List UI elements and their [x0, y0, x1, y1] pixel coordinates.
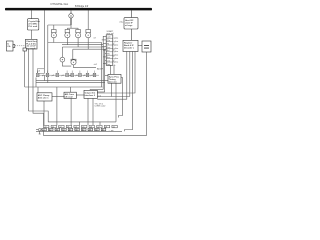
svg-text:A1: A1 [102, 129, 104, 132]
svg-text:A8: A8 [89, 129, 91, 132]
svg-text:p0: p0 [113, 127, 115, 129]
svg-text:ADC Clamp: ADC Clamp [38, 94, 50, 97]
svg-text:rg3ax: rg3ax [114, 48, 119, 50]
svg-text:— pin: — pin [109, 130, 114, 132]
svg-text:p6: p6 [83, 75, 85, 77]
svg-text:rg0ax: rg0ax [114, 38, 119, 40]
svg-text:PLL mult: PLL mult [28, 25, 37, 28]
svg-text:Decoder x: Decoder x [124, 47, 135, 50]
svg-text:Lum: Lum [107, 37, 111, 39]
svg-text:p2: p2 [52, 75, 54, 77]
svg-text:out: out [98, 95, 101, 98]
svg-text:p7: p7 [98, 127, 100, 129]
svg-text:Sync Proc: Sync Proc [109, 76, 120, 79]
svg-text:A2: A2 [49, 129, 51, 132]
svg-text:rg4ax: rg4ax [114, 51, 119, 53]
svg-text:p1: p1 [52, 127, 54, 129]
svg-text:27.0 MHz: 27.0 MHz [28, 23, 37, 25]
svg-text:A6: A6 [75, 129, 77, 132]
svg-text:p5: p5 [82, 127, 84, 129]
svg-text:Fmt: Fmt [107, 63, 111, 66]
svg-text:Dec: Dec [107, 47, 111, 49]
svg-text:p8: p8 [105, 127, 107, 129]
svg-text:Crystal.Osc: Crystal.Osc [28, 20, 40, 23]
svg-text:rg1ax: rg1ax [114, 41, 119, 43]
svg-text:A4: A4 [62, 129, 64, 132]
svg-text:p4: p4 [69, 75, 71, 77]
svg-text:ADDR: ADDR [97, 67, 104, 70]
svg-text:Output fmt: Output fmt [85, 91, 96, 94]
svg-text:p4: p4 [75, 127, 77, 129]
svg-text:mux sel: mux sel [107, 33, 114, 35]
svg-text:A1: A1 [42, 129, 44, 132]
svg-text:rg7ax: rg7ax [114, 61, 119, 63]
svg-text:rg5ax: rg5ax [114, 55, 119, 57]
svg-text:p7: p7 [91, 75, 93, 77]
svg-text:run mode: run mode [26, 47, 36, 50]
svg-text:Out: Out [107, 59, 111, 62]
svg-text:rg2ax: rg2ax [114, 44, 119, 46]
svg-text:A3: A3 [56, 129, 58, 132]
svg-text:p1: p1 [42, 75, 44, 77]
svg-text:A7: A7 [82, 129, 84, 132]
svg-text:slave IF: slave IF [125, 22, 133, 24]
svg-text:p5: p5 [76, 75, 78, 77]
svg-text:AGC ckt in: AGC ckt in [38, 97, 49, 100]
svg-text:rg6ax: rg6ax [114, 58, 119, 60]
svg-text:blk out2: blk out2 [65, 96, 74, 99]
svg-text:CVBS out2: CVBS out2 [95, 105, 107, 108]
svg-text:p3: p3 [67, 127, 69, 129]
svg-text:Register: Register [124, 41, 133, 44]
svg-text:A0: A0 [95, 129, 97, 132]
svg-text:Mtx: Mtx [107, 53, 110, 56]
svg-text:p2: p2 [60, 127, 62, 129]
svg-text:Host I2C: Host I2C [125, 19, 134, 22]
svg-text:Enc: Enc [107, 57, 110, 59]
svg-text:p6: p6 [90, 127, 92, 129]
svg-text:Gen ckt: Gen ckt [109, 81, 117, 84]
svg-text:p3: p3 [62, 75, 64, 77]
svg-text:Interface 2: Interface 2 [85, 94, 96, 97]
svg-text:NTSC/PAL Dec: NTSC/PAL Dec [51, 2, 69, 6]
svg-text:ctl regs: ctl regs [125, 24, 133, 27]
svg-text:Chr: Chr [107, 40, 111, 42]
svg-text:A5: A5 [69, 129, 71, 132]
svg-text:p0: p0 [44, 127, 46, 129]
svg-text:B.Bridge Intf: B.Bridge Intf [75, 5, 88, 8]
